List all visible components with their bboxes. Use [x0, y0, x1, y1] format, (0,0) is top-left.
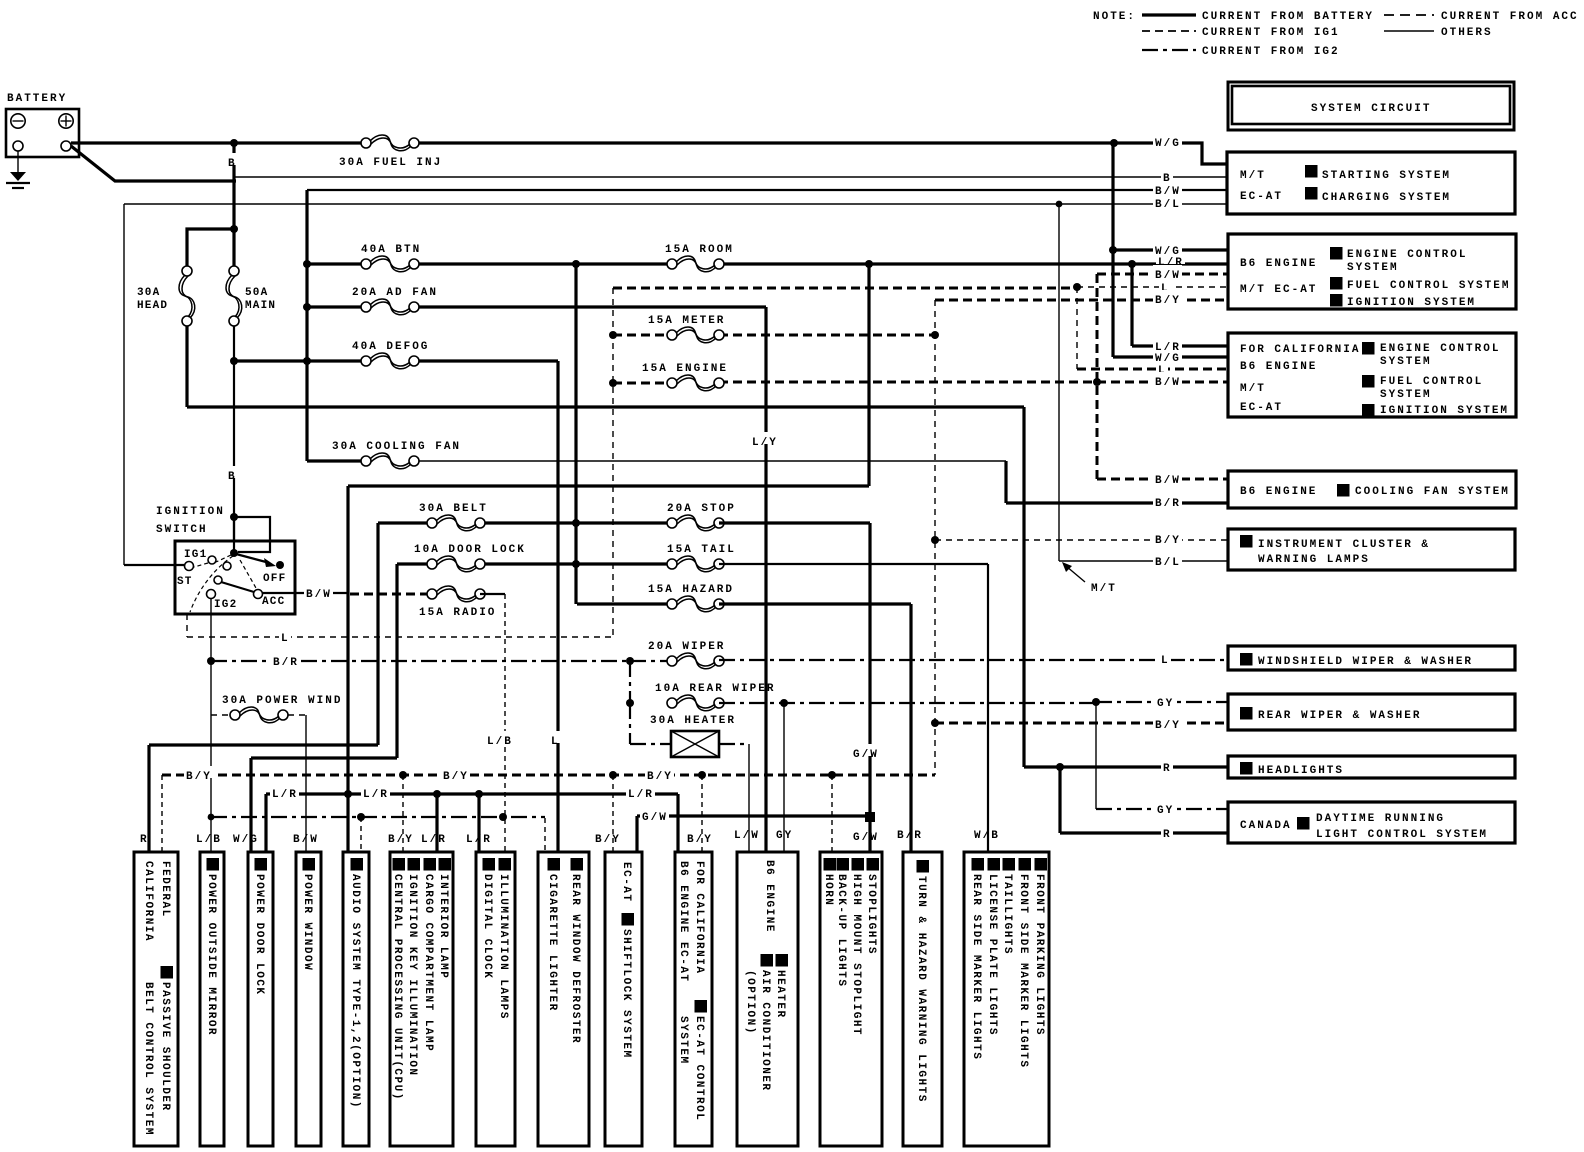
svg-text:15A ROOM: 15A ROOM	[665, 244, 734, 256]
system circuit title box	[1228, 82, 1514, 130]
node meter acc	[609, 331, 617, 339]
box windshield wiper	[1228, 646, 1515, 670]
svg-text:ACC: ACC	[262, 596, 285, 608]
box rear wiper	[1228, 694, 1515, 730]
svg-text:30A: 30A	[137, 287, 160, 299]
fuse 10A REAR WIPER	[667, 698, 677, 708]
fuse 15A ENGINE	[667, 378, 677, 388]
legend current-from-battery sample line	[1142, 13, 1196, 16]
wire GY to canada box	[1096, 808, 1227, 810]
svg-text:SYSTEM: SYSTEM	[677, 1016, 689, 1065]
fuse 15A HAZARD	[667, 599, 677, 609]
svg-text:W/G: W/G	[1155, 246, 1181, 258]
svg-text:20A AD FAN: 20A AD FAN	[352, 287, 438, 299]
ignition switch IG2-ACC contact line	[214, 576, 222, 584]
svg-text:B/W: B/W	[306, 589, 332, 601]
node l/b audio	[357, 813, 365, 821]
node b/y stoplights	[828, 771, 836, 779]
svg-text:M/T: M/T	[1091, 583, 1117, 595]
wire L/R to illumination box	[477, 794, 480, 852]
node engine acc	[609, 379, 617, 387]
wire 15A METER line	[613, 334, 672, 337]
svg-text:FUEL CONTROL: FUEL CONTROL	[1380, 376, 1483, 388]
wire L/B distribution	[211, 816, 545, 818]
wire rear wiper feed	[629, 661, 631, 703]
svg-text:IGNITION SYSTEM: IGNITION SYSTEM	[1347, 297, 1476, 309]
svg-text:CURRENT FROM IG1: CURRENT FROM IG1	[1202, 27, 1340, 39]
wire L dashed to boxes	[613, 287, 1077, 290]
box engine control system	[1228, 234, 1516, 309]
wire bus vertical x576	[574, 264, 577, 604]
svg-text:B6 ENGINE: B6 ENGINE	[763, 860, 775, 933]
svg-text:GY: GY	[1157, 698, 1174, 710]
wire B/R hazard vertical to turn box	[719, 604, 911, 852]
wire L/R to interior box	[435, 794, 438, 852]
svg-text:B/W: B/W	[293, 834, 319, 846]
svg-text:L/R: L/R	[466, 834, 492, 846]
wire B/L thin from ST enclosure	[124, 203, 1227, 205]
svg-text:L: L	[281, 633, 290, 645]
svg-text:B: B	[228, 158, 237, 170]
wire B/W to engine box	[1097, 273, 1227, 276]
svg-text:FEDERAL: FEDERAL	[159, 861, 171, 918]
svg-text:30A COOLING FAN: 30A COOLING FAN	[332, 441, 461, 453]
wire bus 40A BTN / 15A ROOM	[307, 262, 366, 265]
svg-text:30A BELT: 30A BELT	[419, 503, 488, 515]
svg-text:G/W: G/W	[853, 749, 879, 761]
node R canada branch	[1056, 763, 1064, 771]
svg-text:SHIFTLOCK SYSTEM: SHIFTLOCK SYSTEM	[620, 929, 632, 1059]
wire head output to right	[187, 405, 1024, 408]
svg-text:CIGARETTE LIGHTER: CIGARETTE LIGHTER	[546, 874, 558, 1012]
svg-text:R: R	[140, 834, 149, 846]
box canada daytime running	[1228, 802, 1515, 843]
svg-text:HORN: HORN	[822, 874, 834, 906]
wire W/G to california box	[1113, 355, 1227, 358]
box illumination lamps clock	[476, 852, 515, 1146]
svg-text:G/W: G/W	[642, 812, 668, 824]
node L branch	[1073, 283, 1081, 291]
svg-text:HIGH MOUNT STOPLIGHT: HIGH MOUNT STOPLIGHT	[850, 874, 862, 1036]
svg-text:ENGINE CONTROL: ENGINE CONTROL	[1380, 343, 1500, 355]
svg-text:TURN & HAZARD WARNING LIGHTS: TURN & HAZARD WARNING LIGHTS	[915, 876, 927, 1103]
wire GY vertical to canada	[1095, 702, 1097, 809]
svg-text:EC-AT: EC-AT	[1240, 191, 1283, 203]
svg-text:B/Y: B/Y	[443, 771, 469, 783]
wire B/W feed vertical	[305, 190, 308, 461]
svg-text:WINDSHIELD WIPER & WASHER: WINDSHIELD WIPER & WASHER	[1258, 656, 1473, 668]
svg-text:B/Y: B/Y	[687, 834, 713, 846]
svg-text:W/G: W/G	[1155, 353, 1181, 365]
node meter to b/y vertical	[931, 331, 939, 339]
wire L/Y vertical to heater box	[764, 307, 767, 851]
svg-text:R: R	[1163, 763, 1172, 775]
wire R belt vertical to federal box	[149, 523, 378, 852]
label B/W switch	[304, 584, 333, 596]
svg-text:NOTE:: NOTE:	[1093, 11, 1136, 23]
wire W/B vertical to lights box	[987, 564, 989, 852]
svg-text:30A HEATER: 30A HEATER	[650, 715, 736, 727]
box turn hazard warning	[903, 852, 942, 1146]
label B lower	[226, 466, 238, 478]
wire room dist vertical x869	[867, 264, 870, 486]
svg-text:SYSTEM CIRCUIT: SYSTEM CIRCUIT	[1311, 103, 1431, 115]
svg-text:L/B: L/B	[196, 834, 222, 846]
label L/R 3	[626, 784, 655, 796]
legend current-from-ig2 sample line	[1142, 49, 1196, 51]
svg-text:GY: GY	[776, 830, 793, 842]
wire B to starting system box	[234, 176, 1227, 178]
svg-text:R: R	[1163, 829, 1172, 841]
svg-text:B/L: B/L	[1155, 199, 1181, 211]
label B/Y 2	[441, 766, 470, 778]
svg-text:15A RADIO: 15A RADIO	[419, 607, 496, 619]
box b6 engine heater ac	[737, 852, 798, 1146]
wire ACC to B/W out	[262, 592, 295, 594]
label B/Y 3	[645, 766, 674, 778]
box federal passive belt	[134, 852, 178, 1146]
svg-text:BELT CONTROL SYSTEM: BELT CONTROL SYSTEM	[142, 982, 154, 1136]
node B/L branch	[1056, 201, 1063, 208]
wire switch feed loop	[234, 517, 270, 552]
wire L branch to california box	[1076, 287, 1078, 369]
node b/y instrument	[931, 536, 939, 544]
svg-text:L: L	[1161, 655, 1170, 667]
wire B/W charging to starting box	[307, 189, 1227, 191]
fuse 20A AD FAN	[361, 302, 371, 312]
svg-text:(OPTION): (OPTION)	[744, 970, 756, 1035]
wire IG2 vertical	[210, 598, 212, 852]
wire B/Y to ecat box	[701, 775, 703, 852]
wire 15A HAZARD line	[577, 602, 672, 605]
node ig2 L/B branch	[208, 814, 215, 821]
svg-text:L/R: L/R	[272, 789, 298, 801]
wire L/R to ecat box	[676, 794, 679, 852]
box instrument cluster	[1228, 529, 1515, 570]
fuse 20A STOP	[667, 518, 677, 528]
node ig2 b/r branch	[207, 657, 215, 665]
svg-text:SYSTEM: SYSTEM	[1380, 356, 1432, 368]
wire B/Y to shiftlock box	[612, 775, 614, 852]
svg-text:10A REAR WIPER: 10A REAR WIPER	[655, 683, 775, 695]
wire B/Y to instrument box	[935, 539, 1227, 541]
node B into switch	[230, 513, 238, 521]
svg-text:MAIN: MAIN	[245, 300, 276, 312]
box cooling fan system	[1228, 471, 1516, 508]
svg-text:30A POWER WIND: 30A POWER WIND	[222, 695, 342, 707]
label L/R 2	[361, 784, 390, 796]
node battery bus / B vertical	[230, 139, 238, 147]
svg-text:15A HAZARD: 15A HAZARD	[648, 584, 734, 596]
svg-text:B/Y: B/Y	[647, 771, 673, 783]
svg-text:INSTRUMENT CLUSTER &: INSTRUMENT CLUSTER &	[1258, 539, 1430, 551]
svg-text:IGNITION SYSTEM: IGNITION SYSTEM	[1380, 405, 1509, 417]
node bus-room left	[572, 260, 580, 268]
label B upper	[226, 153, 238, 165]
svg-text:L/R: L/R	[628, 789, 654, 801]
box headlights	[1228, 756, 1515, 778]
box california engine control	[1228, 333, 1516, 417]
box audio system	[343, 852, 369, 1146]
label G/W left	[640, 807, 669, 819]
svg-text:EC-AT: EC-AT	[620, 862, 632, 903]
svg-text:WARNING LAMPS: WARNING LAMPS	[1258, 554, 1370, 566]
node btn feed	[303, 260, 311, 268]
wire L dashed from ignition	[187, 614, 613, 637]
svg-text:STARTING SYSTEM: STARTING SYSTEM	[1322, 170, 1451, 182]
wire B/Y federal branch	[161, 775, 163, 852]
svg-text:CENTRAL PROCESSING UNIT(CPU): CENTRAL PROCESSING UNIT(CPU)	[391, 874, 403, 1101]
wire battery positive to B bus diagonal	[71, 146, 236, 181]
label L/Y	[750, 432, 779, 444]
svg-text:W/G: W/G	[233, 834, 259, 846]
svg-text:BATTERY: BATTERY	[7, 93, 67, 105]
wire B/Y dashed vertical	[934, 300, 936, 775]
node l/r illumination	[475, 790, 483, 798]
label L/R 1	[270, 784, 299, 796]
node b/y interior	[399, 771, 407, 779]
svg-text:LICENSE PLATE LIGHTS: LICENSE PLATE LIGHTS	[986, 874, 998, 1036]
svg-text:B6 ENGINE: B6 ENGINE	[1240, 486, 1317, 498]
wire GY to rear wiper box	[1096, 701, 1227, 703]
box starting/charging system	[1227, 152, 1515, 214]
label B/Y 1	[184, 766, 213, 778]
svg-text:OTHERS: OTHERS	[1441, 27, 1493, 39]
node battery bus / W-G takeoff	[1110, 139, 1118, 147]
ignition switch pivot	[230, 549, 238, 557]
wire stop output	[719, 521, 870, 524]
node rear wiper feed	[626, 699, 634, 707]
node gy heater branch	[780, 699, 788, 707]
svg-text:SYSTEM: SYSTEM	[1347, 262, 1399, 274]
wire B/L to instrument box	[1059, 560, 1227, 562]
svg-text:REAR SIDE MARKER LIGHTS: REAR SIDE MARKER LIGHTS	[970, 874, 982, 1060]
wire 40A DEFOG line	[234, 359, 366, 362]
svg-text:B/W: B/W	[1155, 377, 1181, 389]
label L/B radio	[485, 731, 514, 743]
svg-text:B/R: B/R	[273, 657, 299, 669]
svg-text:15A ENGINE: 15A ENGINE	[642, 363, 728, 375]
svg-text:POWER WINDOW: POWER WINDOW	[301, 874, 313, 971]
node l/r audio	[344, 790, 352, 798]
node b/y rear wiper	[931, 719, 939, 727]
fuse 10A DOOR LOCK	[427, 559, 437, 569]
node bus-room right	[865, 260, 873, 268]
node stop feed	[572, 519, 580, 527]
box power window	[296, 852, 321, 1146]
wire B/Y bottom distribution	[162, 774, 935, 777]
svg-text:40A BTN: 40A BTN	[361, 244, 421, 256]
wire 20A AD FAN line	[307, 305, 366, 308]
wire 30A HEAD output down	[185, 326, 188, 407]
svg-text:FRONT SIDE MARKER LIGHTS: FRONT SIDE MARKER LIGHTS	[1017, 874, 1029, 1068]
box power outside mirror	[200, 852, 224, 1146]
svg-text:B/Y: B/Y	[595, 834, 621, 846]
svg-text:HEAD: HEAD	[137, 300, 168, 312]
svg-text:CANADA: CANADA	[1240, 820, 1292, 832]
wire B/W from ignition switch	[295, 592, 348, 594]
fuse 30A HEAD	[182, 266, 192, 276]
svg-text:B/W: B/W	[1155, 475, 1181, 487]
svg-text:TAILLIGHTS: TAILLIGHTS	[1001, 874, 1013, 955]
svg-text:CALIFORNIA: CALIFORNIA	[142, 861, 154, 942]
wire G/W stop distribution	[637, 814, 870, 817]
box front parking lights	[964, 852, 1049, 1146]
wire W/G vertical	[1111, 143, 1114, 357]
wire G/W to shiftlock box	[635, 816, 638, 852]
svg-text:20A WIPER: 20A WIPER	[648, 641, 725, 653]
wire heater output L/W	[719, 743, 749, 745]
svg-text:REAR WINDOW DEFROSTER: REAR WINDOW DEFROSTER	[569, 874, 581, 1044]
fuse 30A POWER WIND	[230, 710, 240, 720]
svg-text:EC-AT: EC-AT	[1240, 402, 1283, 414]
svg-text:B/L: B/L	[1155, 557, 1181, 569]
svg-text:HEADLIGHTS: HEADLIGHTS	[1258, 765, 1344, 777]
svg-text:INTERIOR LAMP: INTERIOR LAMP	[437, 874, 449, 979]
node engine-b/w junction	[1093, 378, 1101, 386]
wire B/Y to engine box	[935, 299, 1227, 302]
ignition switch box	[175, 541, 295, 614]
svg-text:M/T: M/T	[1240, 383, 1266, 395]
fuse 40A BTN	[361, 259, 371, 269]
wire L/R doorlock branch	[264, 794, 267, 852]
legend current-from-ig1 sample line	[1142, 30, 1196, 32]
wire L/B to defroster box	[544, 818, 546, 852]
svg-text:IG2: IG2	[214, 599, 237, 611]
box interior lamp cpu	[390, 852, 453, 1146]
svg-text:20A STOP: 20A STOP	[667, 503, 736, 515]
wire B/L vertical	[1058, 204, 1060, 561]
svg-text:STOPLIGHTS: STOPLIGHTS	[865, 874, 877, 955]
svg-text:W/G: W/G	[1155, 138, 1181, 150]
ignition switch IG2 contact	[207, 590, 216, 599]
wire audio vertical x348	[346, 486, 349, 852]
wire B/R dash-dot to wiper	[211, 660, 630, 662]
wire tail output to W/B	[719, 563, 988, 565]
svg-text:B/Y: B/Y	[388, 834, 414, 846]
svg-text:B: B	[228, 471, 237, 483]
svg-text:B/Y: B/Y	[1155, 720, 1181, 732]
svg-text:L/Y: L/Y	[752, 437, 778, 449]
svg-text:LIGHT CONTROL SYSTEM: LIGHT CONTROL SYSTEM	[1316, 829, 1488, 841]
node b/y ecat	[698, 771, 706, 779]
svg-text:HEATER: HEATER	[774, 970, 786, 1019]
svg-text:B6 ENGINE: B6 ENGINE	[1240, 361, 1317, 373]
wire main battery bus y=143	[71, 141, 366, 144]
wire 10A DOOR LOCK line	[397, 562, 432, 565]
legend current-from-acc sample line	[1384, 14, 1434, 16]
svg-text:CARGO COMPARTMENT LAMP: CARGO COMPARTMENT LAMP	[422, 874, 434, 1052]
svg-text:15A TAIL: 15A TAIL	[667, 544, 736, 556]
svg-text:B6 ENGINE: B6 ENGINE	[1240, 258, 1317, 270]
wire ST enclosure	[123, 204, 125, 565]
svg-text:EC-AT CONTROL: EC-AT CONTROL	[693, 1016, 705, 1121]
svg-text:AUDIO SYSTEM TYPE-1,2(OPTION): AUDIO SYSTEM TYPE-1,2(OPTION)	[349, 874, 361, 1109]
svg-text:B/W: B/W	[1155, 270, 1181, 282]
fuse 30A BELT	[427, 518, 437, 528]
fuse 15A RADIO	[427, 589, 437, 599]
wire room dist y486	[348, 484, 869, 487]
svg-text:AIR CONDITIONER: AIR CONDITIONER	[759, 970, 771, 1092]
node adfan feed	[303, 303, 311, 311]
fuse 20A WIPER	[667, 656, 677, 666]
svg-text:IGNITION: IGNITION	[156, 506, 225, 518]
node l/r interior	[433, 790, 441, 798]
svg-text:REAR WIPER & WASHER: REAR WIPER & WASHER	[1258, 710, 1421, 722]
svg-text:L: L	[551, 736, 560, 748]
node wiper rear branch	[626, 657, 634, 665]
svg-text:B/Y: B/Y	[1155, 535, 1181, 547]
ignition switch ST contact	[185, 562, 194, 571]
svg-text:FOR CALIFORNIA: FOR CALIFORNIA	[693, 861, 705, 974]
node l/b illumination	[499, 813, 507, 821]
svg-text:FUEL CONTROL SYSTEM: FUEL CONTROL SYSTEM	[1347, 280, 1510, 292]
svg-text:DIGITAL CLOCK: DIGITAL CLOCK	[481, 874, 493, 979]
ignition switch OFF contact	[276, 561, 284, 569]
svg-text:B/R: B/R	[1155, 498, 1181, 510]
wire L dashed vertical x613	[612, 288, 614, 637]
wire G/W vertical stop	[868, 523, 871, 852]
wire 15A ENGINE line	[613, 382, 672, 385]
svg-text:COOLING FAN SYSTEM: COOLING FAN SYSTEM	[1355, 486, 1510, 498]
svg-text:L/R: L/R	[363, 789, 389, 801]
box california ecat control	[675, 852, 712, 1146]
svg-text:L/R: L/R	[1155, 342, 1181, 354]
wire 30A BELT line	[378, 521, 432, 524]
node B branch to head fuse	[230, 225, 238, 233]
wire W/G doorlock vertical	[251, 564, 397, 852]
svg-text:L/B: L/B	[487, 736, 513, 748]
svg-text:OFF: OFF	[263, 573, 286, 585]
wire R to canada box	[1060, 767, 1227, 833]
wire B/W dashed vertical	[1096, 274, 1099, 479]
ignition switch internal dashed	[194, 555, 231, 567]
wire heater feed	[630, 703, 671, 744]
wire W/G to engine box	[1113, 248, 1227, 251]
svg-text:ENGINE CONTROL: ENGINE CONTROL	[1347, 249, 1467, 261]
wire L defogger vertical	[556, 361, 559, 852]
wire B/Y to rear wiper box	[935, 722, 1227, 725]
svg-text:BACK-UP LIGHTS: BACK-UP LIGHTS	[835, 874, 847, 987]
svg-text:L/R: L/R	[421, 834, 447, 846]
box rear window defroster	[538, 852, 589, 1146]
svg-text:10A DOOR LOCK: 10A DOOR LOCK	[414, 544, 526, 556]
wire B/W to cooling fan box	[1097, 478, 1227, 481]
ignition switch ACC contact	[254, 590, 263, 599]
svg-text:DAYTIME RUNNING: DAYTIME RUNNING	[1316, 813, 1445, 825]
svg-text:B/Y: B/Y	[186, 771, 212, 783]
svg-text:CHARGING SYSTEM: CHARGING SYSTEM	[1322, 192, 1451, 204]
fuse 15A TAIL	[667, 559, 677, 569]
legend others sample line	[1384, 30, 1434, 32]
fuse 30A FUEL INJ	[361, 138, 371, 148]
wire L wiper output to windshield box	[719, 659, 1227, 661]
fuse 50A MAIN	[229, 266, 239, 276]
svg-text:CURRENT FROM BATTERY: CURRENT FROM BATTERY	[1202, 11, 1374, 23]
fuse 30A COOLING FAN	[361, 456, 371, 466]
box ecat shiftlock	[605, 852, 642, 1146]
svg-text:50A: 50A	[245, 287, 268, 299]
wire GY vertical to heater box	[783, 703, 785, 852]
wire rear wiper output	[719, 702, 1096, 704]
label B/R ig2	[271, 652, 300, 664]
svg-text:SWITCH: SWITCH	[156, 524, 208, 536]
wire cooling fan line	[307, 459, 366, 462]
svg-text:FRONT PARKING LIGHTS: FRONT PARKING LIGHTS	[1033, 874, 1045, 1036]
wire R to headlights box	[1024, 765, 1227, 768]
wire L/B to audio box	[360, 817, 362, 852]
svg-text:L/W: L/W	[734, 830, 760, 842]
